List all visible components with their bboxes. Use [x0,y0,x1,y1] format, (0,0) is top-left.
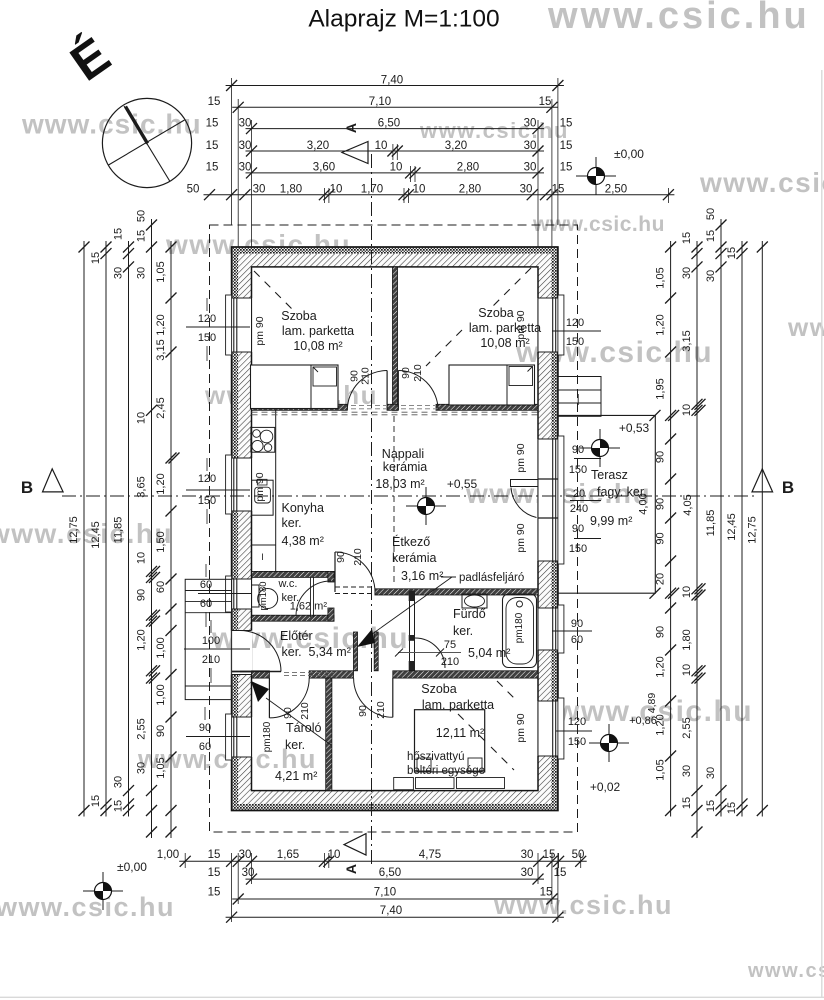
kitchen stove [251,427,275,452]
svg-text:15: 15 [208,849,221,861]
furdo partition block top [409,591,415,602]
south corridor wall segment B [309,671,353,678]
svg-text:50: 50 [187,184,200,196]
right dim chain 12,45 [741,241,743,817]
svg-text:3,15: 3,15 [155,339,167,360]
svg-text:15: 15 [560,117,573,129]
svg-text:www.csic.hu: www.csic.hu [787,312,824,342]
svg-text:3,65: 3,65 [136,476,148,497]
svg-text:Tároló: Tároló [286,721,321,735]
svg-text:Szoba: Szoba [421,682,456,696]
svg-text:9,99 m²: 9,99 m² [590,514,632,528]
svg-text:10: 10 [390,162,403,174]
svg-text:2,55: 2,55 [136,718,148,739]
svg-text:210: 210 [299,702,311,720]
svg-text:Konyha: Konyha [282,501,324,515]
svg-text:20: 20 [573,488,585,500]
left dim chain 11,85 [128,241,130,817]
svg-text:15: 15 [705,230,717,242]
svg-text:pm180: pm180 [258,581,269,610]
window furdo right wall [537,608,559,650]
north symbol cross line [109,120,185,165]
svg-text:15: 15 [113,800,125,812]
svg-text:4,05: 4,05 [682,494,694,515]
svg-text:15: 15 [208,867,221,879]
window bedroom2 right wall [537,298,559,352]
entrance porch outline [185,579,231,699]
door bedroom1 arc [347,371,387,411]
svg-text:1,05: 1,05 [655,267,667,288]
svg-text:30: 30 [705,767,717,779]
kitchen counter shelf line [252,544,276,546]
svg-text:50: 50 [705,208,717,220]
svg-text:15: 15 [208,96,221,108]
bottom dim row 7,40 [226,916,564,918]
svg-text:50: 50 [572,849,585,861]
svg-text:150: 150 [568,736,586,748]
right dim chain 11,85 [720,219,722,817]
right dim chain 12,75 [761,241,763,817]
svg-text:1,62 m²: 1,62 m² [290,601,328,613]
top dim row 7,40 [226,85,564,87]
svg-text:210: 210 [375,701,387,719]
svg-text:210: 210 [360,367,372,385]
left dim chain openings [170,241,172,838]
svg-text:1,20: 1,20 [155,473,167,494]
top dim row 3,60-10-2,80 [246,172,545,174]
svg-text:150: 150 [566,336,584,348]
svg-text:10: 10 [681,404,693,416]
terrace door arc [511,488,537,518]
bottom dim row 6,50 [246,878,545,880]
top dim row openings [204,194,675,196]
roof eaves dashed outline [210,225,578,832]
furdo partition block bottom [409,661,415,671]
svg-text:1,00: 1,00 [155,637,167,658]
svg-text:pm 90: pm 90 [515,713,527,742]
svg-text:hőszivattyú: hőszivattyú [407,751,465,763]
svg-text:90: 90 [572,444,584,456]
svg-text:240: 240 [570,503,588,515]
entrance door arc [240,631,281,672]
right dim chain walls [696,241,698,838]
svg-text:+0,53: +0,53 [619,421,650,435]
svg-text:30: 30 [681,765,693,777]
svg-text:30: 30 [239,849,252,861]
svg-text:11,85: 11,85 [705,510,717,537]
svg-text:A: A [343,864,359,874]
svg-text:B: B [782,478,794,497]
heat pump indoor unit box [415,710,485,772]
bottom dim row openings [179,860,587,862]
left dim chain 12,75 [83,241,85,817]
svg-text:www.csic.hu: www.csic.hu [21,109,202,140]
left dim chain walls [151,219,153,838]
svg-text:2,80: 2,80 [457,162,479,174]
svg-text:15: 15 [90,252,102,264]
svg-text:15: 15 [554,867,567,879]
svg-text:+0,86: +0,86 [629,715,657,727]
left dim chain 12,45 [105,241,107,817]
roof slope dashes bedroom2 [488,268,531,311]
svg-text:10: 10 [413,184,426,196]
section marker A bottom triangle [344,834,366,855]
porch step line 3 [185,612,231,614]
svg-text:60: 60 [571,634,583,646]
svg-text:15: 15 [543,849,556,861]
exterior wall right insulation band [551,247,558,811]
svg-text:75: 75 [444,639,456,651]
roof slope dashes szoba3 lower [491,747,514,770]
svg-text:15: 15 [726,802,738,814]
svg-text:30: 30 [253,184,266,196]
svg-text:lam. parketta: lam. parketta [422,698,494,712]
svg-text:15: 15 [726,247,738,259]
dashed passage line 2 [335,593,375,595]
page scan edge bottom [0,996,824,998]
threshold dashes bedroom1 door [351,404,386,406]
svg-text:15: 15 [539,96,552,108]
svg-text:150: 150 [198,332,216,344]
svg-text:50: 50 [136,210,148,222]
terrace outline [558,415,655,593]
furdo partition block mid [409,635,415,641]
svg-text:120: 120 [198,473,216,485]
svg-text:90: 90 [655,532,667,544]
svg-text:15: 15 [206,162,219,174]
window wc left wall [231,579,253,609]
exterior wall top block band [232,254,558,267]
svg-text:2,50: 2,50 [605,184,627,196]
toilet [252,585,260,607]
svg-text:30: 30 [521,867,534,879]
svg-text:11,85: 11,85 [113,517,125,544]
svg-text:1,80: 1,80 [681,629,693,650]
svg-text:fagy. ker.: fagy. ker. [597,485,647,499]
svg-text:lam. parketta: lam. parketta [469,321,541,335]
svg-text:1,05: 1,05 [155,757,167,778]
svg-text:pm180: pm180 [514,612,525,643]
svg-text:15: 15 [681,797,693,809]
hall opening jamb left [354,632,358,671]
hall-furdo north wall [375,589,538,595]
svg-text:3,60: 3,60 [313,162,335,174]
svg-text:10,08 m²: 10,08 m² [293,339,342,353]
svg-text:1,20: 1,20 [155,314,167,335]
svg-text:60: 60 [155,581,167,593]
svg-text:12,45: 12,45 [726,513,738,541]
section marker B right triangle [752,469,773,492]
bed bedroom1 [251,365,339,409]
svg-text:90: 90 [357,705,369,717]
svg-text:1,20: 1,20 [655,714,667,735]
svg-text:±0,00: ±0,00 [614,147,644,161]
taroló east wall [326,678,332,791]
svg-text:4,38 m²: 4,38 m² [282,534,324,548]
bedroom south wall middle stub [387,404,398,410]
wc east wall upper piece [328,571,334,582]
svg-text:3,20: 3,20 [445,140,467,152]
porch step line 1 [185,590,231,592]
svg-text:1,05: 1,05 [655,759,667,780]
roof slope dashes bedroom1 [254,271,297,314]
door wc arc [296,581,331,616]
svg-text:1,20: 1,20 [136,629,148,650]
wc north wall [252,571,335,577]
svg-text:60: 60 [200,579,212,591]
svg-text:7,40: 7,40 [380,905,402,917]
dashed passage line 1 [335,586,375,588]
svg-text:www.csic.hu: www.csic.hu [699,167,824,198]
svg-text:2,45: 2,45 [155,397,167,418]
benchmark bottom left [83,890,123,892]
svg-text:150: 150 [198,495,216,507]
section marker B left triangle [43,469,64,492]
svg-text:30: 30 [239,117,252,129]
svg-text:90: 90 [136,589,148,601]
label padlasfeljaro with leader [441,576,456,578]
porch step line 2 [185,601,231,603]
threshold dashed lines at entrance [284,672,334,674]
porch landing line [185,685,231,687]
exterior wall left block band [238,254,251,804]
svg-text:1,20: 1,20 [655,314,667,335]
svg-text:Előtér: Előtér [280,629,313,643]
svg-text:1,95: 1,95 [655,378,667,399]
svg-text:1,70: 1,70 [361,184,383,196]
svg-text:1,80: 1,80 [280,184,302,196]
svg-text:Fürdő: Fürdő [453,607,486,621]
svg-text:7,10: 7,10 [369,96,391,108]
svg-text:ker.: ker. [282,645,302,659]
svg-text:15: 15 [560,162,573,174]
north symbol needle thick half [126,107,148,144]
svg-text:30: 30 [113,267,125,279]
top dim row 6,50 [246,128,545,130]
wc east wall lower piece [328,608,334,621]
svg-text:20: 20 [655,573,667,585]
benchmark bottom right [589,742,629,744]
svg-text:15: 15 [681,232,693,244]
furdo west partition double line [409,595,411,672]
door furdo arc [415,638,445,668]
attic access arrow [368,577,452,637]
svg-text:6,50: 6,50 [378,117,400,129]
bedroom south wall right segment [436,404,538,410]
svg-text:60: 60 [199,741,211,753]
svg-text:www.csic.hu: www.csic.hu [0,518,173,549]
svg-text:4,75: 4,75 [419,849,441,861]
svg-text:30: 30 [524,140,537,152]
svg-text:pm 90: pm 90 [515,310,527,339]
roof slope dashes szoba3 upper [497,681,516,700]
door taroló arc [269,678,309,718]
svg-text:beltéri egysége: beltéri egysége [407,765,485,777]
window taroló left wall [231,717,253,757]
svg-text:15: 15 [206,140,219,152]
svg-text:5,34 m²: 5,34 m² [309,645,351,659]
svg-text:1,00: 1,00 [155,684,167,705]
svg-text:15: 15 [705,800,717,812]
roof slope dashes szoba3 mid [458,714,489,745]
svg-text:30: 30 [239,162,252,174]
window bedroom1 left wall [231,298,253,352]
svg-text:12,75: 12,75 [68,516,80,544]
svg-text:kerámia: kerámia [392,551,437,565]
svg-text:3,15: 3,15 [681,330,693,351]
svg-text:pm 90: pm 90 [515,523,527,552]
south corridor wall segment C [393,671,538,678]
svg-text:30: 30 [520,184,533,196]
svg-text:15: 15 [540,887,553,899]
window kitchen left wall [231,458,253,511]
svg-text:www.csic.hu: www.csic.hu [547,0,810,37]
svg-text:pm 90: pm 90 [254,316,266,345]
svg-text:30: 30 [681,267,693,279]
svg-text:Szoba: Szoba [478,306,513,320]
svg-text:120: 120 [566,317,584,329]
heat pump feet [417,758,431,771]
svg-text:7,40: 7,40 [381,74,403,86]
svg-text:3,16 m²: 3,16 m² [401,569,443,583]
svg-text:90: 90 [155,725,167,737]
threshold dashes bedroom2 door [401,404,435,406]
exterior wall right block band [538,254,551,804]
exterior wall left insulation band [232,247,239,811]
svg-text:210: 210 [441,656,459,668]
svg-text:10: 10 [375,140,388,152]
svg-text:www.csic.hu: www.csic.hu [0,892,175,922]
section axis A-A vertical dash-dot [371,154,373,868]
svg-text:120: 120 [198,313,216,325]
svg-text:210: 210 [352,548,364,566]
dashed line under bedroom wall [252,411,539,413]
window szoba3 right wall [537,701,559,756]
door bedroom2 arc [398,371,438,411]
svg-text:Terasz: Terasz [591,468,628,482]
svg-text:kerámia: kerámia [383,460,428,474]
equipment rects at south wall [394,778,414,790]
svg-text:4,21 m²: 4,21 m² [275,769,317,783]
svg-text:210: 210 [202,654,220,666]
svg-text:30: 30 [521,849,534,861]
svg-text:w.c.: w.c. [278,578,298,590]
svg-text:30: 30 [705,270,717,282]
svg-text:lam. parketta: lam. parketta [282,324,354,338]
door wc leaf double line [310,577,312,617]
terrace door leaf [511,480,538,487]
svg-text:1,00: 1,00 [157,849,179,861]
svg-text:30: 30 [113,776,125,788]
benchmark terrace [580,447,620,449]
svg-text:30: 30 [524,117,537,129]
svg-text:60: 60 [200,598,212,610]
svg-text:15: 15 [136,230,148,242]
bathtub [503,594,537,668]
svg-text:ker.: ker. [453,624,473,638]
svg-text:2,80: 2,80 [459,184,481,196]
svg-text:120: 120 [568,716,586,728]
svg-text:10: 10 [136,412,148,424]
exterior wall top insulation band [232,247,558,254]
exterior wall bottom block band [232,791,558,804]
svg-text:12,11 m²: 12,11 m² [436,726,484,740]
bed bedroom2 [449,365,535,405]
top dim row 7,10 [232,106,558,108]
svg-text:12,45: 12,45 [90,521,102,549]
svg-text:www.csic.hu: www.csic.hu [747,960,824,982]
kitchen counter edge [275,410,277,571]
entrance arrow [266,698,331,745]
svg-text:210: 210 [412,364,424,382]
svg-text:1,05: 1,05 [155,261,167,282]
svg-text:www.csic.hu: www.csic.hu [419,118,569,143]
svg-text:30: 30 [524,162,537,174]
svg-text:90: 90 [572,523,584,535]
svg-text:15: 15 [206,117,219,129]
partition wall between bedrooms [393,267,398,410]
entrance door opening left wall [231,631,253,675]
svg-text:padlásfeljáró: padlásfeljáró [459,572,524,584]
svg-text:150: 150 [569,464,587,476]
benchmark nappali [406,505,446,507]
door nappali-eloter arc [335,552,375,592]
svg-text:pm 90: pm 90 [254,472,266,501]
svg-text:+0,55: +0,55 [447,477,478,491]
terrace steps north-east [558,377,601,417]
svg-text:18,03 m²: 18,03 m² [375,477,424,491]
svg-text:12,75: 12,75 [746,516,758,544]
svg-text:B: B [21,478,33,497]
exterior wall bottom insulation band [232,804,558,811]
washbasin [462,594,487,608]
svg-text:90: 90 [400,367,412,379]
svg-text:3,20: 3,20 [307,140,329,152]
dashed attic hatch vertical [393,416,395,586]
section axis B-B horizontal dash-dot [62,495,755,497]
svg-text:5,04 m²: 5,04 m² [468,646,510,660]
svg-text:90: 90 [199,722,211,734]
kitchen sink [252,480,274,515]
svg-text:2,55: 2,55 [681,717,693,738]
svg-text:15: 15 [113,228,125,240]
svg-text:90: 90 [655,498,667,510]
door szoba3 arc [354,678,393,717]
svg-text:150: 150 [569,543,587,555]
svg-text:1,50: 1,50 [155,531,167,552]
page scan edge right [821,70,823,997]
svg-text:pm180: pm180 [262,721,273,752]
svg-text:6,50: 6,50 [379,867,401,879]
bottom dim extension verticals [184,853,186,868]
svg-text:30: 30 [136,762,148,774]
svg-text:100: 100 [202,635,220,647]
hall opening jamb right [374,632,378,671]
svg-text:90: 90 [335,551,347,563]
svg-text:15: 15 [560,140,573,152]
svg-text:90: 90 [655,451,667,463]
svg-text:15: 15 [208,887,221,899]
south corridor wall segment A [252,671,270,678]
svg-text:Étkező: Étkező [392,534,430,549]
svg-text:ker.: ker. [282,516,302,530]
svg-text:30: 30 [239,140,252,152]
svg-text:1,65: 1,65 [277,849,299,861]
bedroom south wall left segment [252,404,348,410]
svg-text:1,20: 1,20 [655,656,667,677]
roof slope dashes bedroom2 lower [426,330,462,366]
svg-text:±0,00: ±0,00 [117,860,147,874]
